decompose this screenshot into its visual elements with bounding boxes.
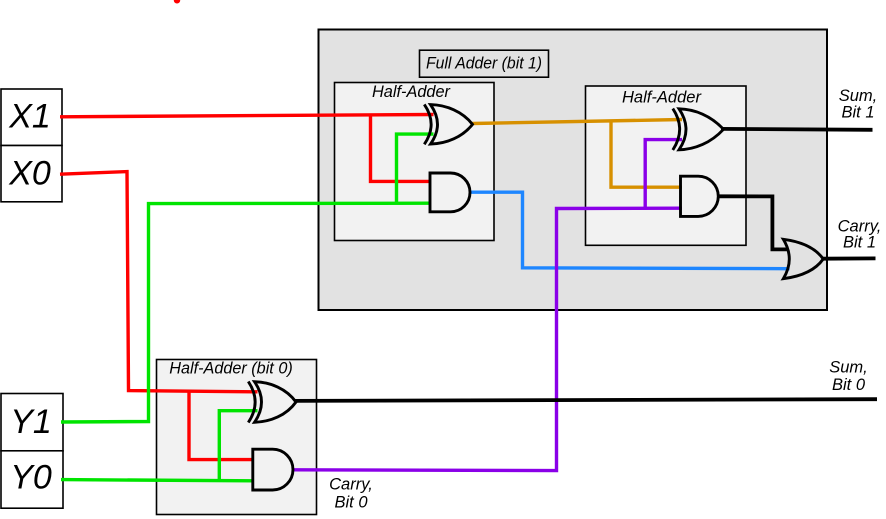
svg-text:X1: X1: [8, 98, 51, 136]
or gate (carry bit 1): [783, 239, 823, 278]
wire black: XOR2 output, Sum Bit 1: [721, 127, 873, 132]
svg-text:Bit 1: Bit 1: [841, 103, 874, 121]
input box X0: [1, 146, 62, 202]
wire green: Y0 right to AND0 bottom input: [61, 480, 254, 481]
output label Carry, Bit 1: [838, 217, 882, 251]
svg-text:Full Adder (bit 1): Full Adder (bit 1): [426, 53, 542, 72]
output label Sum, Bit 1: [839, 87, 878, 121]
svg-text:Y0: Y0: [10, 459, 52, 497]
input box X1: [1, 89, 62, 146]
wire green: Y1 up and right to AND1 bottom input: [61, 203, 431, 422]
xor gate XOR2 (right half-adder): [673, 109, 724, 150]
wire red: branch X1 down to AND1 top input: [371, 116, 432, 181]
wire black: XOR0 output, Sum Bit 0: [294, 399, 877, 401]
svg-text:Carry,: Carry,: [329, 476, 373, 494]
label box: Full Adder (bit 1): [420, 50, 549, 77]
and gate AND2 (right half-adder): [681, 176, 719, 216]
svg-text:Half-Adder: Half-Adder: [622, 87, 702, 106]
output label Sum, Bit 0: [829, 358, 868, 394]
svg-text:Bit 0: Bit 0: [334, 494, 368, 512]
wire black: OR output, Carry Bit 1: [822, 256, 876, 260]
wire green: branch Y0 up to XOR0 bottom input: [219, 411, 257, 482]
svg-text:Half-Adder: Half-Adder: [372, 82, 451, 101]
svg-text:Sum,: Sum,: [839, 87, 878, 105]
wire red: X1 to XOR1 top input: [60, 115, 434, 117]
and gate AND0 (half-adder bit 0): [253, 449, 293, 490]
wire red: branch X0 down to AND0 top input: [189, 392, 254, 460]
wire black: AND2 output to OR top input: [717, 196, 788, 249]
wire purple: AND0 output up to AND2 bottom input: [293, 208, 683, 470]
wire orange: branch down to AND2 top input: [611, 121, 682, 187]
wire green: branch Y1 up to XOR1 bottom input: [397, 134, 434, 204]
svg-text:Half-Adder (bit 0): Half-Adder (bit 0): [169, 359, 293, 378]
input box Y1: [1, 394, 63, 451]
svg-text:Bit 1: Bit 1: [843, 234, 876, 252]
half-adder box (right, inside full adder): [586, 86, 747, 245]
svg-text:X0: X0: [8, 155, 51, 193]
and gate AND1 (left half-adder): [430, 173, 470, 212]
output label Carry, Bit 0: [329, 476, 373, 512]
wire blue: AND1 output down and right to OR bottom input: [470, 192, 790, 269]
wire orange: XOR1 output to XOR2 top input: [472, 120, 682, 124]
input box Y0: [1, 451, 63, 508]
svg-text:Sum,: Sum,: [829, 358, 868, 376]
wire red: X0 down and right to XOR0 top input: [60, 172, 258, 392]
stray red mark (cropped) at top: [174, 0, 180, 4]
half-adder box (left, inside full adder): [335, 82, 495, 241]
wire purple: branch up to XOR2 bottom input: [645, 140, 682, 210]
svg-text:Bit 0: Bit 0: [832, 376, 866, 394]
xor gate XOR1 (left half-adder): [424, 104, 472, 144]
svg-text:Y1: Y1: [10, 403, 52, 441]
full adder (bit 1) enclosure box: [319, 30, 828, 311]
half-adder (bit 0) box: [157, 359, 317, 515]
xor gate XOR0 (half-adder bit 0): [248, 382, 296, 423]
